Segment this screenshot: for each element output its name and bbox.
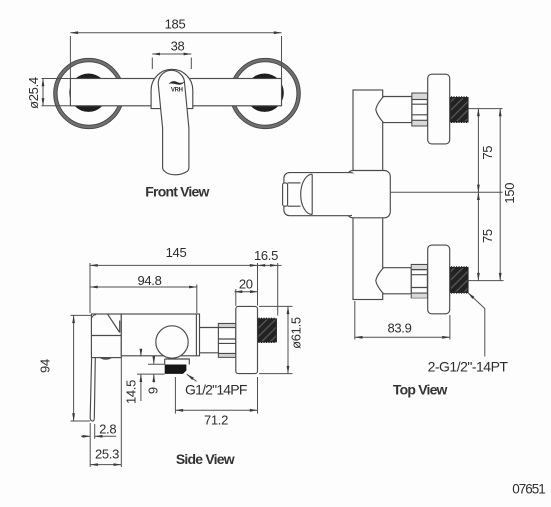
- svg-text:9: 9: [146, 387, 161, 394]
- svg-text:Front View: Front View: [145, 184, 209, 200]
- svg-text:14.5: 14.5: [123, 380, 138, 404]
- svg-text:ø25.4: ø25.4: [26, 77, 41, 109]
- svg-text:G1/2"14PF: G1/2"14PF: [185, 381, 247, 397]
- svg-text:75: 75: [480, 229, 495, 243]
- svg-text:2-G1/2"-14PT: 2-G1/2"-14PT: [428, 358, 509, 374]
- svg-text:150: 150: [502, 183, 517, 204]
- svg-text:2.8: 2.8: [99, 422, 116, 437]
- svg-text:07651: 07651: [512, 482, 545, 497]
- svg-text:75: 75: [480, 146, 495, 160]
- svg-text:94: 94: [38, 359, 53, 373]
- svg-text:83.9: 83.9: [387, 321, 411, 336]
- svg-text:38: 38: [171, 39, 185, 54]
- svg-text:185: 185: [165, 17, 186, 32]
- svg-text:71.2: 71.2: [204, 413, 228, 428]
- svg-text:Side View: Side View: [176, 451, 235, 467]
- svg-text:16.5: 16.5: [254, 248, 278, 263]
- svg-text:25.3: 25.3: [95, 447, 119, 462]
- svg-text:ø61.5: ø61.5: [289, 317, 304, 349]
- svg-text:Top View: Top View: [393, 382, 448, 398]
- svg-text:20: 20: [239, 277, 253, 292]
- svg-text:145: 145: [166, 245, 187, 260]
- svg-text:VRH: VRH: [171, 87, 183, 93]
- svg-text:94.8: 94.8: [137, 273, 161, 288]
